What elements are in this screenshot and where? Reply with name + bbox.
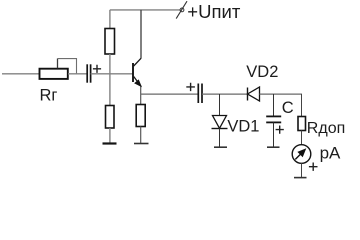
wire emitter to C2 bbox=[141, 93, 199, 95]
wire R1 to base node to R2 bbox=[109, 54, 111, 106]
resistor R2 (lower bias) bbox=[106, 106, 115, 129]
plus mark of C1 bbox=[93, 65, 101, 73]
transistor VT1 base bar bbox=[132, 63, 134, 82]
wire emitter down bbox=[140, 87, 142, 105]
wire VD1 to ground bbox=[219, 129, 221, 148]
svg-text:VD1: VD1 bbox=[227, 118, 259, 136]
capacitor C plates bbox=[266, 115, 281, 117]
transistor collector lead bbox=[134, 58, 141, 66]
resistor Rдоп bbox=[298, 117, 306, 131]
resistor R1 (upper bias) bbox=[105, 29, 115, 55]
ground bar C bbox=[267, 146, 280, 148]
wire tap bracket over Rг bbox=[57, 59, 59, 69]
svg-text:pA: pA bbox=[320, 144, 341, 163]
wire collector from rail bbox=[140, 10, 142, 59]
resistor R3 (emitter) bbox=[136, 105, 145, 127]
svg-text:C: C bbox=[282, 99, 294, 117]
wire VD1 branch bbox=[219, 94, 221, 116]
wire input from left edge bbox=[2, 73, 40, 75]
wire C2 to VD2 bbox=[202, 93, 248, 95]
wire Rг to C1 bbox=[68, 73, 87, 75]
wire R2 to ground bbox=[109, 128, 111, 144]
wire C branch bbox=[273, 94, 275, 117]
ground bar meter bbox=[294, 177, 307, 179]
wire VD2 to corner bbox=[260, 93, 303, 95]
capacitor C1 plates bbox=[86, 64, 88, 82]
wire top rail bbox=[110, 9, 180, 11]
plus mark of meter bbox=[309, 163, 318, 171]
resistor Rг bbox=[40, 69, 68, 79]
capacitor C2 plates bbox=[197, 84, 199, 104]
svg-text:Rг: Rг bbox=[40, 87, 58, 105]
transistor emitter lead with arrow bbox=[134, 77, 142, 87]
diode VD1 bbox=[213, 116, 227, 129]
ground bar R3 bbox=[134, 143, 149, 145]
svg-text:Rдоп: Rдоп bbox=[307, 120, 345, 137]
diode VD2 bbox=[247, 88, 249, 101]
wire meter to ground bbox=[301, 163, 303, 177]
wire C1 to base node bbox=[91, 73, 133, 75]
wire corner down to Rдоп bbox=[301, 94, 303, 117]
svg-text:+Uпит: +Uпит bbox=[187, 1, 241, 22]
plus mark of C2 bbox=[186, 83, 195, 91]
terminal +Uпит bbox=[180, 8, 184, 12]
wire Rдоп to meter bbox=[301, 131, 303, 145]
svg-text:VD2: VD2 bbox=[246, 63, 278, 81]
wire rail to R1 bbox=[109, 10, 111, 29]
meter pA bbox=[292, 145, 311, 164]
wire C to ground bbox=[273, 122, 275, 147]
ground bar VD1 bbox=[214, 146, 227, 148]
wire R3 to ground bbox=[140, 127, 142, 144]
plus mark of C bbox=[276, 126, 284, 134]
ground bar R2 bbox=[103, 142, 117, 144]
